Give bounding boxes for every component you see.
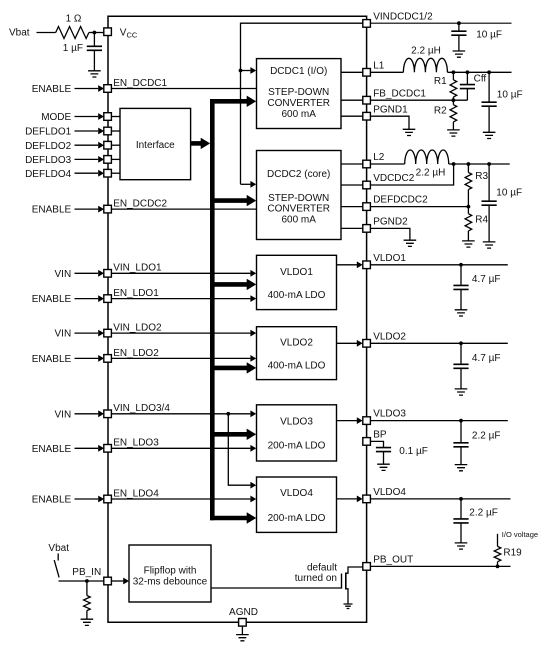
pin DEFLDO4 [104, 169, 112, 177]
label ENABLE (external, EN_LDO1) [32, 294, 72, 305]
label EN_LDO1 [113, 288, 159, 299]
wire VIN_LDO3/4 internal [111, 413, 250, 415]
label EN_LDO4 [113, 488, 159, 499]
label BP [373, 430, 387, 441]
wire MODE to pin MODE [75, 116, 99, 118]
pin EN_LDO1 [104, 295, 112, 303]
svg-text:2.2 µH: 2.2 µH [411, 46, 441, 57]
label 2.2 uH (L2) [416, 168, 446, 179]
label VDCDC2 [373, 173, 415, 184]
svg-text:Cff: Cff [474, 74, 487, 85]
wire Q1 drain to PB_OUT [346, 567, 363, 573]
label PB_OUT [373, 555, 413, 566]
wire VLDO4 output [337, 498, 358, 500]
block VLDO2 400-mA LDO [257, 327, 337, 380]
svg-text:4.7 µF: 4.7 µF [472, 274, 501, 285]
pin FB_DCDC1 [363, 96, 371, 104]
resistor R4 [465, 207, 472, 241]
wire ENABLE to pin EN_DCDC1 [75, 88, 99, 90]
node VINDCDC cap [457, 21, 461, 25]
svg-text:PB_IN: PB_IN [72, 567, 101, 578]
node VDCDC2 sense [452, 162, 456, 166]
thick arrow into VLDO2 [247, 362, 257, 373]
ground (VINDCDC cap) [453, 51, 466, 57]
svg-text:EN_LDO2: EN_LDO2 [113, 348, 159, 359]
svg-text:R4: R4 [475, 215, 488, 226]
resistor R2 [450, 100, 457, 130]
wire R1 to FB [452, 97, 454, 100]
wire R to VCC pin [89, 32, 104, 34]
label ENABLE (external, EN_LDO4) [32, 495, 72, 506]
wire DEFLDO2 to pin DEFLDO2 [75, 144, 99, 146]
wire cap to ground [93, 50, 95, 71]
node VLDO3 cap [459, 419, 463, 423]
resistor 1 ohm [56, 27, 89, 39]
label VIN (external, VIN_LDO1) [55, 269, 72, 280]
pin VLDO3 [363, 417, 371, 425]
wire VLDO4 rail [370, 498, 510, 500]
switch pushbutton lever [54, 560, 59, 577]
arrow into pin VIN_LDO2 [98, 330, 104, 337]
block Interface [120, 108, 191, 179]
svg-text:L1: L1 [373, 60, 385, 71]
label R4 [475, 215, 488, 226]
label VLDO1 [373, 253, 406, 264]
svg-text:ENABLE: ENABLE [32, 354, 72, 365]
pin MODE [104, 113, 112, 121]
svg-text:2.2 µF: 2.2 µF [469, 507, 498, 518]
wire ENABLE to pin EN_LDO4 [75, 498, 99, 500]
wire ENABLE to pin EN_LDO1 [75, 298, 99, 300]
arrow into pin DEFLDO1 [98, 128, 104, 135]
transistor Q1 channel bar [345, 573, 347, 590]
node VCC ext junction [93, 31, 97, 35]
wire DEFLDO4 stub to Interface [111, 172, 120, 174]
wire ENABLE to pin EN_LDO2 [75, 357, 99, 359]
wire VDCDC1 rail [447, 71, 511, 73]
wire DEFLDO3 to pin DEFLDO3 [75, 158, 99, 160]
node Cff top [466, 70, 470, 74]
label R3 [475, 171, 488, 182]
ground (10 uF DCDC1) [483, 132, 496, 138]
wire BP [370, 441, 383, 447]
svg-text:VLDO4: VLDO4 [280, 488, 313, 499]
arrow VIN_LDO2 into block [250, 330, 256, 337]
wire VDCDC2 sense [370, 164, 453, 185]
svg-text:DEFLDO3: DEFLDO3 [25, 155, 72, 166]
arrow into pin DEFLDO3 [98, 156, 104, 163]
thick arrow into VLDO1 [247, 279, 257, 290]
node VLDO2 cap [459, 341, 463, 345]
wire VINDCDC internal feed vertical [240, 23, 242, 185]
capacitor 10 uF (VINDCDC) [451, 31, 466, 35]
svg-text:DCDC1 (I/O): DCDC1 (I/O) [270, 66, 327, 77]
block VLDO1 400-mA LDO [257, 255, 337, 309]
label 2.2 uF (VLDO4) [469, 507, 498, 518]
wire DCDC2 to pin PGND2 [341, 227, 363, 229]
svg-text:R19: R19 [503, 547, 522, 558]
svg-text:L2: L2 [373, 152, 385, 163]
pin VCC [104, 28, 112, 36]
pin DEFLDO2 [104, 141, 112, 149]
node FB junction [452, 98, 456, 102]
label PGND2 [373, 217, 408, 228]
svg-text:DEFLDO2: DEFLDO2 [25, 141, 72, 152]
svg-text:VLDO3: VLDO3 [373, 409, 406, 420]
wire DCDC2 to pin L2 [341, 163, 363, 165]
svg-text:VIN_LDO2: VIN_LDO2 [113, 323, 162, 334]
svg-text:turned on: turned on [295, 573, 337, 584]
pin VLDO2 [363, 340, 371, 348]
svg-text:Vbat: Vbat [48, 543, 69, 554]
svg-text:VLDO2: VLDO2 [373, 331, 406, 342]
wire DCDC2 to pin VDCDC2 [341, 184, 363, 186]
wire L2 to inductor [370, 163, 404, 165]
label ENABLE (external, EN_LDO2) [32, 354, 72, 365]
svg-text:PGND1: PGND1 [373, 104, 408, 115]
node C10 top [487, 70, 491, 74]
label VLDO2 [373, 331, 406, 342]
svg-text:PGND2: PGND2 [373, 217, 408, 228]
arrow into pin DEFLDO4 [98, 170, 104, 177]
svg-text:CONVERTER: CONVERTER [267, 98, 330, 109]
wire cap to ground [458, 35, 460, 51]
node R19 bottom [496, 565, 500, 569]
svg-text:DEFLDO4: DEFLDO4 [25, 169, 72, 180]
label DEFLDO3 (external, DEFLDO3) [25, 155, 72, 166]
label 2.2 uH (L1) [411, 46, 441, 57]
svg-text:10 µF: 10 µF [476, 29, 502, 40]
wire PGND2 [370, 228, 410, 240]
arrow into flipflop [123, 578, 129, 585]
label Cff [474, 74, 487, 85]
label EN_LDO3 [113, 438, 159, 449]
thick bus branch to VLDO4 [210, 516, 248, 521]
thick bus branch to DCDC1 [210, 99, 248, 104]
label FB_DCDC1 [373, 88, 426, 99]
wire to 10uF cap [458, 23, 460, 31]
thick arrow into VLDO4 [247, 512, 257, 523]
wire I/O voltage stub [497, 534, 499, 547]
svg-text:VIN: VIN [55, 329, 72, 340]
wire EN_LDO2 internal [111, 357, 250, 359]
pin VLDO4 [363, 495, 371, 503]
node VLDO4 cap [459, 497, 463, 501]
block DCDC2 (core) step-down converter [257, 151, 342, 240]
svg-text:DEFLDO1: DEFLDO1 [25, 127, 72, 138]
node feed to DCDC1 [239, 69, 243, 73]
node VLDO1 cap [459, 263, 463, 267]
arrow EN_LDO2 into block [250, 355, 256, 362]
svg-text:400-mA LDO: 400-mA LDO [268, 361, 326, 372]
svg-text:VLDO1: VLDO1 [373, 253, 406, 264]
svg-text:DCDC2 (core): DCDC2 (core) [267, 169, 330, 180]
wire VIN_LDO3/4 down to VLDO4 [228, 414, 250, 485]
switch pushbutton stub [57, 553, 59, 560]
svg-text:VLDO4: VLDO4 [373, 487, 406, 498]
svg-text:STEP-DOWN: STEP-DOWN [268, 87, 329, 98]
svg-text:EN_LDO4: EN_LDO4 [113, 488, 159, 499]
capacitor VLDO4 output [453, 499, 468, 543]
arrow VLDO3 into pin [357, 417, 363, 424]
wire VIN_LDO2 internal [111, 332, 250, 334]
label AGND [229, 607, 258, 618]
block VLDO3 200-mA LDO [257, 405, 337, 461]
node PB_IN pulldown [85, 579, 89, 583]
svg-text:VLDO3: VLDO3 [280, 416, 313, 427]
wire PB_IN to flipflop [111, 580, 123, 582]
svg-text:ENABLE: ENABLE [32, 495, 72, 506]
capacitor Cff [460, 72, 475, 100]
label R19 [503, 547, 522, 558]
ground (AGND) [236, 635, 249, 641]
arrow VIN into VLDO4 [250, 482, 256, 489]
svg-text:MODE: MODE [41, 112, 71, 123]
pin PGND2 [363, 225, 371, 233]
svg-text:STEP-DOWN: STEP-DOWN [268, 193, 329, 204]
svg-text:4.7 µF: 4.7 µF [472, 353, 501, 364]
pin EN_LDO3 [104, 445, 112, 453]
capacitor VLDO1 output [453, 265, 468, 310]
label Vbat (bottom) [48, 543, 69, 554]
svg-text:600 mA: 600 mA [281, 109, 316, 120]
node R1 top [452, 70, 456, 74]
wire DCDC1 to pin FB_DCDC1 [341, 99, 363, 101]
svg-text:1 Ω: 1 Ω [66, 14, 82, 25]
svg-text:200-mA LDO: 200-mA LDO [268, 441, 326, 452]
wire EN_LDO4 internal [111, 498, 250, 500]
svg-text:PB_OUT: PB_OUT [373, 555, 413, 566]
pin VINDCDC1/2 [363, 20, 371, 28]
label 4.7 uF (VLDO1) [472, 274, 501, 285]
pin L2 [363, 160, 371, 168]
thick arrow Interface into bus [201, 138, 211, 149]
svg-text:VIN: VIN [55, 409, 72, 420]
pin PB_OUT [363, 563, 371, 571]
arrow feed into DCDC2 [250, 181, 256, 188]
thick bus branch to VLDO3 [210, 432, 248, 437]
inductor L1 2.2 uH [403, 58, 447, 72]
wire VLDO1 output [337, 264, 358, 266]
arrow VLDO2 into pin [357, 340, 363, 347]
wire DEFLDO3 stub to Interface [111, 158, 120, 160]
transistor Q1 gate bar [341, 574, 343, 589]
label Vbat (top) [9, 28, 30, 39]
ground (10 uF DCDC2) [483, 242, 496, 248]
svg-text:R3: R3 [475, 171, 488, 182]
label EN_LDO2 [113, 348, 159, 359]
resistor R19 [494, 546, 501, 566]
svg-text:1 µF: 1 µF [63, 43, 83, 54]
svg-text:VLDO2: VLDO2 [280, 338, 313, 349]
wire flipflop to Q1 gate [211, 587, 342, 589]
ground (VLDO3 cap) [455, 465, 468, 471]
thick arrow into VLDO3 [247, 429, 257, 440]
pin EN_DCDC2 [104, 205, 112, 213]
svg-text:FB_DCDC1: FB_DCDC1 [373, 88, 426, 99]
resistor R1 [450, 80, 457, 97]
label 0.1 uF [399, 446, 428, 457]
resistor PB_IN pulldown [84, 581, 91, 619]
thick bus branch to VLDO2 [210, 366, 248, 371]
block VLDO4 200-mA LDO [257, 477, 337, 532]
pin PB_IN [104, 577, 112, 585]
capacitor VLDO2 output [453, 343, 468, 389]
wire ENABLE to pin EN_DCDC2 [75, 208, 99, 210]
thick arrow into DCDC2 [247, 195, 257, 206]
label DEFLDO2 (external, DEFLDO2) [25, 141, 72, 152]
wire VLDO1 rail [370, 264, 507, 266]
wire R1 stub [452, 72, 454, 80]
label I/O voltage [502, 530, 538, 539]
label ENABLE (external, EN_LDO3) [32, 444, 72, 455]
wire DEFLDO1 to pin DEFLDO1 [75, 130, 99, 132]
wire VIN_LDO1 internal [111, 272, 250, 274]
capacitor 0.1 uF (BP) [376, 448, 391, 465]
svg-text:VLDO1: VLDO1 [280, 267, 313, 278]
label default turned on [295, 563, 337, 585]
thick bus branch to DCDC2 [210, 198, 248, 203]
block flipflop with 32-ms debounce [129, 545, 211, 602]
wire DEFLDO1 stub to Interface [111, 130, 120, 132]
label VIN_LDO3/4 [113, 403, 170, 414]
wire VLDO3 rail [370, 420, 507, 422]
arrow into pin EN_DCDC1 [98, 85, 104, 92]
svg-text:2.2 µH: 2.2 µH [416, 168, 446, 179]
wire VIN to pin VIN_LDO1 [75, 272, 99, 274]
svg-text:ENABLE: ENABLE [32, 444, 72, 455]
svg-text:default: default [307, 563, 337, 574]
svg-text:ENABLE: ENABLE [32, 205, 72, 216]
label DEFDCDC2 [373, 195, 428, 206]
ground (VLDO2 cap) [455, 389, 468, 395]
svg-text:400-mA LDO: 400-mA LDO [268, 290, 326, 301]
pin VIN_LDO3/4 [104, 410, 112, 418]
svg-text:DEFDCDC2: DEFDCDC2 [373, 195, 428, 206]
svg-text:EN_LDO1: EN_LDO1 [113, 288, 159, 299]
label R2 [434, 106, 447, 117]
svg-text:EN_DCDC2: EN_DCDC2 [113, 199, 167, 210]
ground (PB_IN pulldown) [81, 619, 94, 625]
ground (PGND2) [404, 240, 417, 246]
pin BP [363, 438, 371, 446]
ground (PGND1) [403, 129, 416, 135]
arrow into pin DEFLDO2 [98, 142, 104, 149]
svg-text:EN_LDO3: EN_LDO3 [113, 438, 159, 449]
wire VIN to pin VIN_LDO3/4 [75, 413, 99, 415]
pin EN_LDO4 [104, 495, 112, 503]
node DEFDCDC2 junction [467, 205, 471, 209]
svg-text:VINDCDC1/2: VINDCDC1/2 [373, 12, 433, 23]
svg-text:VIN: VIN [55, 269, 72, 280]
wire VIN to pin VIN_LDO2 [75, 332, 99, 334]
svg-text:VIN_LDO1: VIN_LDO1 [113, 263, 162, 274]
wire switch to PB_IN [59, 580, 104, 582]
arrow EN_LDO1 into block [250, 295, 256, 302]
arrow VLDO1 into pin [357, 261, 363, 268]
pin EN_DCDC1 [104, 85, 112, 93]
wire DCDC1 to pin PGND1 [341, 115, 363, 117]
wire FB_DCDC1 rail [370, 99, 467, 101]
label PB_IN [72, 567, 101, 578]
IC boundary outline [108, 16, 367, 622]
wire Q1 source to ground [346, 589, 348, 604]
capacitor 10 uF (DCDC2) [482, 164, 497, 242]
wire DCDC1 to pin L1 [341, 71, 363, 73]
svg-text:Interface: Interface [136, 140, 175, 151]
svg-text:VCC: VCC [120, 27, 138, 39]
inductor L2 2.2 uH [405, 150, 449, 164]
label 10 uF (DCDC2) [496, 188, 522, 199]
label 1 ohm [66, 14, 82, 25]
arrow feed into DCDC1 [250, 67, 256, 74]
label L1 [373, 60, 385, 71]
arrow into pin VIN_LDO1 [98, 270, 104, 277]
arrow EN_LDO3 into block [250, 445, 256, 452]
wire DEFLDO2 stub to Interface [111, 144, 120, 146]
pin DEFLDO1 [104, 127, 112, 135]
svg-text:CONVERTER: CONVERTER [267, 204, 330, 215]
label VIN_LDO2 [113, 323, 162, 334]
label L2 [373, 152, 385, 163]
pin L1 [363, 69, 371, 77]
thick bus branch to VLDO1 [210, 282, 248, 287]
label VIN (external, VIN_LDO3/4) [55, 409, 72, 420]
label 1 uF [63, 43, 83, 54]
wire feed to DCDC2 [241, 183, 251, 185]
arrow into pin MODE [98, 113, 104, 120]
arrow into pin EN_LDO2 [98, 355, 104, 362]
node R3 top [467, 162, 471, 166]
label EN_DCDC1 [113, 78, 167, 89]
label 10 uF (DCDC1) [497, 89, 523, 100]
pin DEFLDO3 [104, 156, 112, 164]
arrow EN_LDO4 into block [250, 496, 256, 503]
wire DCDC2 to pin DEFDCDC2 [341, 206, 363, 208]
svg-text:200-mA LDO: 200-mA LDO [268, 513, 326, 524]
pin DEFDCDC2 [363, 203, 371, 211]
label R1 [434, 76, 447, 87]
wire VLDO2 output [337, 342, 358, 344]
wire VLDO2 rail [370, 342, 507, 344]
node VIN_LDO3/4 branch [226, 412, 230, 416]
ground (VLDO1 cap) [455, 310, 468, 316]
wire DEFDCDC2 rail [370, 206, 468, 208]
wire feed to DCDC1 [241, 70, 251, 72]
svg-text:2.2 µF: 2.2 µF [472, 430, 501, 441]
pin PGND1 [363, 112, 371, 120]
svg-text:R2: R2 [434, 106, 447, 117]
thick bus vertical [210, 99, 215, 520]
wire EN_DCDC1 to DCDC1 [111, 88, 256, 90]
wire VLDO3 output [337, 420, 358, 422]
ground (BP cap) [377, 464, 390, 470]
wire EN_LDO1 internal [111, 298, 250, 300]
svg-text:600 mA: 600 mA [281, 215, 316, 226]
svg-text:0.1 µF: 0.1 µF [399, 446, 428, 457]
svg-text:Flipflop with: Flipflop with [144, 566, 197, 577]
label VINDCDC1/2 [373, 12, 433, 23]
arrow into pin EN_LDO4 [98, 496, 104, 503]
label VLDO4 [373, 487, 406, 498]
label 10 uF (VINDCDC) [476, 29, 502, 40]
svg-text:Vbat: Vbat [9, 28, 30, 39]
svg-text:32-ms debounce: 32-ms debounce [133, 577, 208, 588]
label ENABLE (external, EN_DCDC2) [32, 205, 72, 216]
resistor R3 [465, 164, 472, 207]
svg-text:ENABLE: ENABLE [32, 84, 72, 95]
label MODE (external, MODE) [41, 112, 71, 123]
